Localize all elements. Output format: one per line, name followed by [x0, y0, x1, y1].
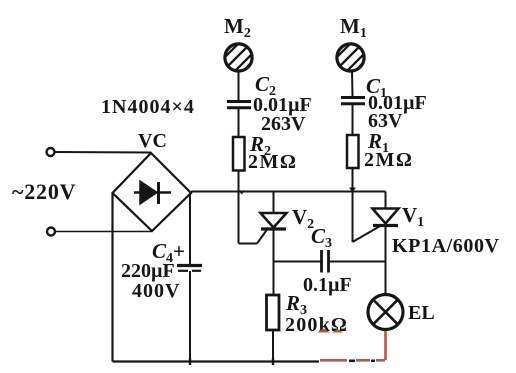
wire V1 cathode down to lamp — [385, 226, 387, 295]
wire C1 to R1 — [352, 105, 354, 135]
bridge rectifier VC — [113, 153, 192, 231]
thyristor V2 — [261, 192, 287, 230]
black dots in dashed rail — [349, 359, 375, 362]
electrode M2 — [222, 40, 256, 78]
svg-text:~220V: ~220V — [12, 179, 76, 204]
junction tick R3 rail — [272, 358, 274, 365]
capacitor C2 — [227, 102, 251, 108]
wire R1 to gate of V1 — [353, 168, 382, 242]
terminal AC bottom — [47, 228, 55, 236]
svg-text:400V: 400V — [132, 280, 180, 302]
junction dot R2 supply crossing — [240, 191, 244, 194]
wire AC top to bridge — [55, 151, 151, 154]
svg-text:C3: C3 — [311, 224, 332, 251]
svg-text:M2: M2 — [224, 14, 251, 41]
svg-text:263V: 263V — [261, 113, 306, 135]
wire M1 to C1 — [351, 71, 354, 97]
capacitor C3 — [274, 250, 386, 273]
capacitor C4 — [177, 266, 202, 271]
lamp EL — [368, 295, 403, 330]
resistor R3 — [267, 295, 280, 330]
capacitor C1 — [341, 98, 365, 104]
wire AC bottom to bridge — [55, 231, 152, 233]
red dashed rail to lamp — [320, 331, 386, 360]
svg-text:KP1A/600V: KP1A/600V — [392, 235, 500, 257]
resistor R2 — [233, 137, 245, 171]
svg-text:2MΩ: 2MΩ — [364, 149, 413, 171]
svg-text:220µF: 220µF — [121, 260, 175, 282]
junction dot R1 supply crossing — [350, 188, 355, 192]
svg-text:2MΩ: 2MΩ — [248, 151, 297, 173]
wire V2 cathode down — [273, 229, 275, 295]
wire C2 to R2 — [238, 109, 240, 137]
svg-text:1N4004×4: 1N4004×4 — [101, 96, 195, 118]
wire C4 to bottom rail — [189, 271, 191, 362]
resistor R1 — [347, 135, 359, 168]
terminal AC top — [47, 148, 55, 156]
wire R3 to bottom rail — [272, 330, 274, 362]
wire bridge positive down to C4 — [189, 193, 191, 265]
electrode M1 — [334, 40, 368, 78]
junction tick C4 rail — [189, 358, 191, 365]
svg-text:EL: EL — [408, 302, 435, 324]
wire DC supply rail — [191, 191, 386, 193]
red print artifact under label — [317, 329, 343, 333]
thyristor V1 — [373, 192, 399, 226]
svg-text:200kΩ: 200kΩ — [285, 314, 348, 336]
wire bridge negative left vertical — [111, 193, 113, 362]
wire R2 to gate of V2 — [239, 171, 269, 244]
svg-text:0.1µF: 0.1µF — [303, 274, 352, 296]
svg-text:M1: M1 — [340, 14, 367, 41]
svg-text:VC: VC — [138, 130, 167, 152]
wire M2 to C2 — [238, 71, 240, 101]
svg-text:V1: V1 — [402, 203, 424, 230]
bottom rail — [113, 360, 320, 362]
